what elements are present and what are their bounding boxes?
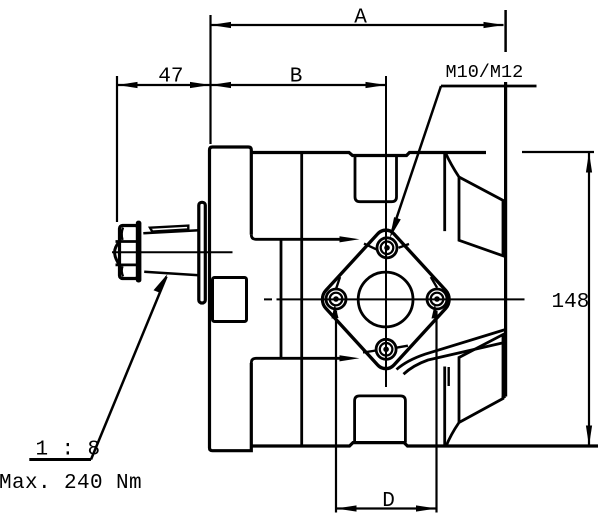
svg-text:1 : 8: 1 : 8 [36, 439, 101, 462]
washer (solid bar) [136, 221, 142, 283]
extension line left (A/B datum) [209, 15, 211, 144]
shaft centerline [112, 251, 233, 253]
rear cover right edge lower hook [503, 397, 506, 399]
body top edge with port pad [251, 153, 486, 156]
svg-text:148: 148 [552, 291, 590, 314]
extension line D right (from right bolt hole) [435, 311, 437, 513]
svg-text:M10/M12: M10/M12 [446, 62, 524, 83]
hex nut left bulge [115, 242, 120, 265]
svg-text:47: 47 [158, 66, 183, 89]
rear cover rib diagonal upper of lower pair [397, 330, 506, 370]
svg-text:D: D [382, 490, 395, 513]
housing step lower line with arrow [251, 358, 341, 363]
svg-text:A: A [354, 7, 367, 30]
dimension 148 bottom arrow [586, 426, 592, 447]
dimension A right arrow [484, 22, 505, 28]
flange center circle [358, 272, 413, 327]
taper leader arrow [154, 274, 168, 293]
mounting flange plate outline [210, 147, 252, 451]
shaft key [150, 226, 188, 232]
hex nut lower face line [116, 263, 139, 266]
dimension A line [211, 24, 504, 26]
taper leader line [91, 277, 167, 460]
bolt hole top [364, 238, 409, 258]
hex nut chamfer arc top [122, 228, 123, 241]
dimension D left arrow [336, 505, 357, 511]
shaft tapered bottom edge [144, 272, 199, 276]
horizontal centerline of flange [264, 298, 525, 300]
rear cover bottom wing (rib) [446, 335, 503, 446]
housing step upper line with arrow [251, 235, 341, 240]
dimension 148 top arrow [586, 152, 592, 173]
leader arrow up at right bolt hole [432, 304, 439, 319]
side port rectangle [213, 278, 247, 322]
dimension B left arrow [211, 82, 232, 88]
vertical centerline of flange [385, 76, 387, 387]
taper leader 1:8 underline [29, 458, 91, 461]
M10/M12 leader line [392, 86, 442, 233]
rear cover inner rib line lower [448, 367, 450, 386]
hex nut upper face line [116, 240, 139, 243]
flange diamond outline [318, 225, 454, 374]
bolt hole left [326, 277, 346, 309]
inner vertical line (body/front-cover joint) [300, 153, 303, 447]
shaft pilot plate [199, 202, 206, 303]
svg-text:Max. 240 Nm: Max. 240 Nm [0, 472, 142, 495]
top port notch [355, 156, 397, 202]
M10/M12 leader arrow [390, 217, 401, 238]
dimension B line [211, 84, 386, 86]
extension line 148 top [522, 151, 594, 153]
shaft tapered top edge [143, 230, 199, 233]
hex nut outline [120, 226, 139, 279]
M10/M12 label [443, 57, 538, 81]
inner vertical line (gear housing joint) [280, 239, 283, 358]
rear cover top wing (rib) [446, 153, 504, 256]
extension line A right / body rear edge [504, 10, 507, 52]
dimension 47 right arrow [190, 82, 211, 88]
leader arrow up at left bolt hole [332, 304, 339, 319]
rear cover joint vertical lower [443, 367, 446, 447]
extension line D left (from left bolt hole) [335, 311, 337, 513]
bolt hole bottom [363, 339, 408, 359]
bottom port notch [355, 396, 406, 443]
bolt hole right [427, 277, 447, 309]
rear cover joint vertical upper [443, 153, 446, 232]
svg-text:B: B [290, 66, 303, 89]
extension line 47 left [116, 76, 118, 222]
body bottom edge with pad, extends as 148 extension [251, 443, 598, 446]
dimension D line [336, 507, 437, 509]
M10/M12 leader underline [441, 85, 537, 88]
dimension 47 left arrow [117, 82, 138, 88]
rear cover rib diagonal lower of lower pair [404, 342, 506, 374]
dimension 148 line [588, 152, 590, 446]
dimension A left arrow [211, 22, 232, 28]
hex nut chamfer arc bottom [122, 266, 123, 276]
dimension D right arrow [416, 505, 437, 511]
dimension B right arrow [366, 82, 386, 88]
dimension 47 line [117, 84, 211, 86]
